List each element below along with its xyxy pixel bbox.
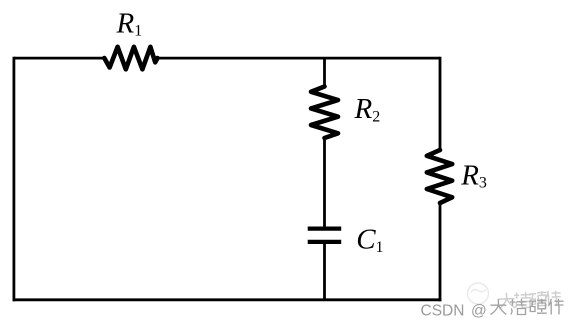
watermark: ghost CJK text (light, offset up-right) [499,290,562,308]
svg-text:@: @ [471,302,487,319]
watermark: faint avatar circle above the @ [468,283,489,304]
wire: bottom horizontal [13,298,442,301]
svg-text:R1: R1 [116,7,143,39]
watermark: CJK username glyphs (drawn strokes) [491,299,564,315]
resistor R2 (zigzag on middle branch) [311,87,338,139]
wire: top segment from R1 to top-right corner [157,57,441,60]
svg-text:R2: R2 [354,93,381,125]
resistor R1 (zigzag on top wire) [104,47,157,70]
wire: left side vertical [12,57,15,302]
capacitor C1 (two parallel plates on middle branch) [308,229,342,242]
wire: top-left segment from left corner to R1 [14,57,105,60]
resistor R3 (zigzag on right branch) [427,150,452,203]
svg-text:C1: C1 [356,224,383,256]
svg-text:CSDN: CSDN [421,302,465,319]
wire: middle branch upper (top wire to R2) [323,58,326,86]
svg-text:R3: R3 [460,160,487,192]
wire: middle branch between R2 and C1 [323,138,326,227]
wire: middle branch lower (C1 to bottom wire) [323,244,326,300]
wire: right side upper (top corner to R3) [439,57,442,150]
wire: right side lower (R3 to bottom corner) [439,203,442,301]
